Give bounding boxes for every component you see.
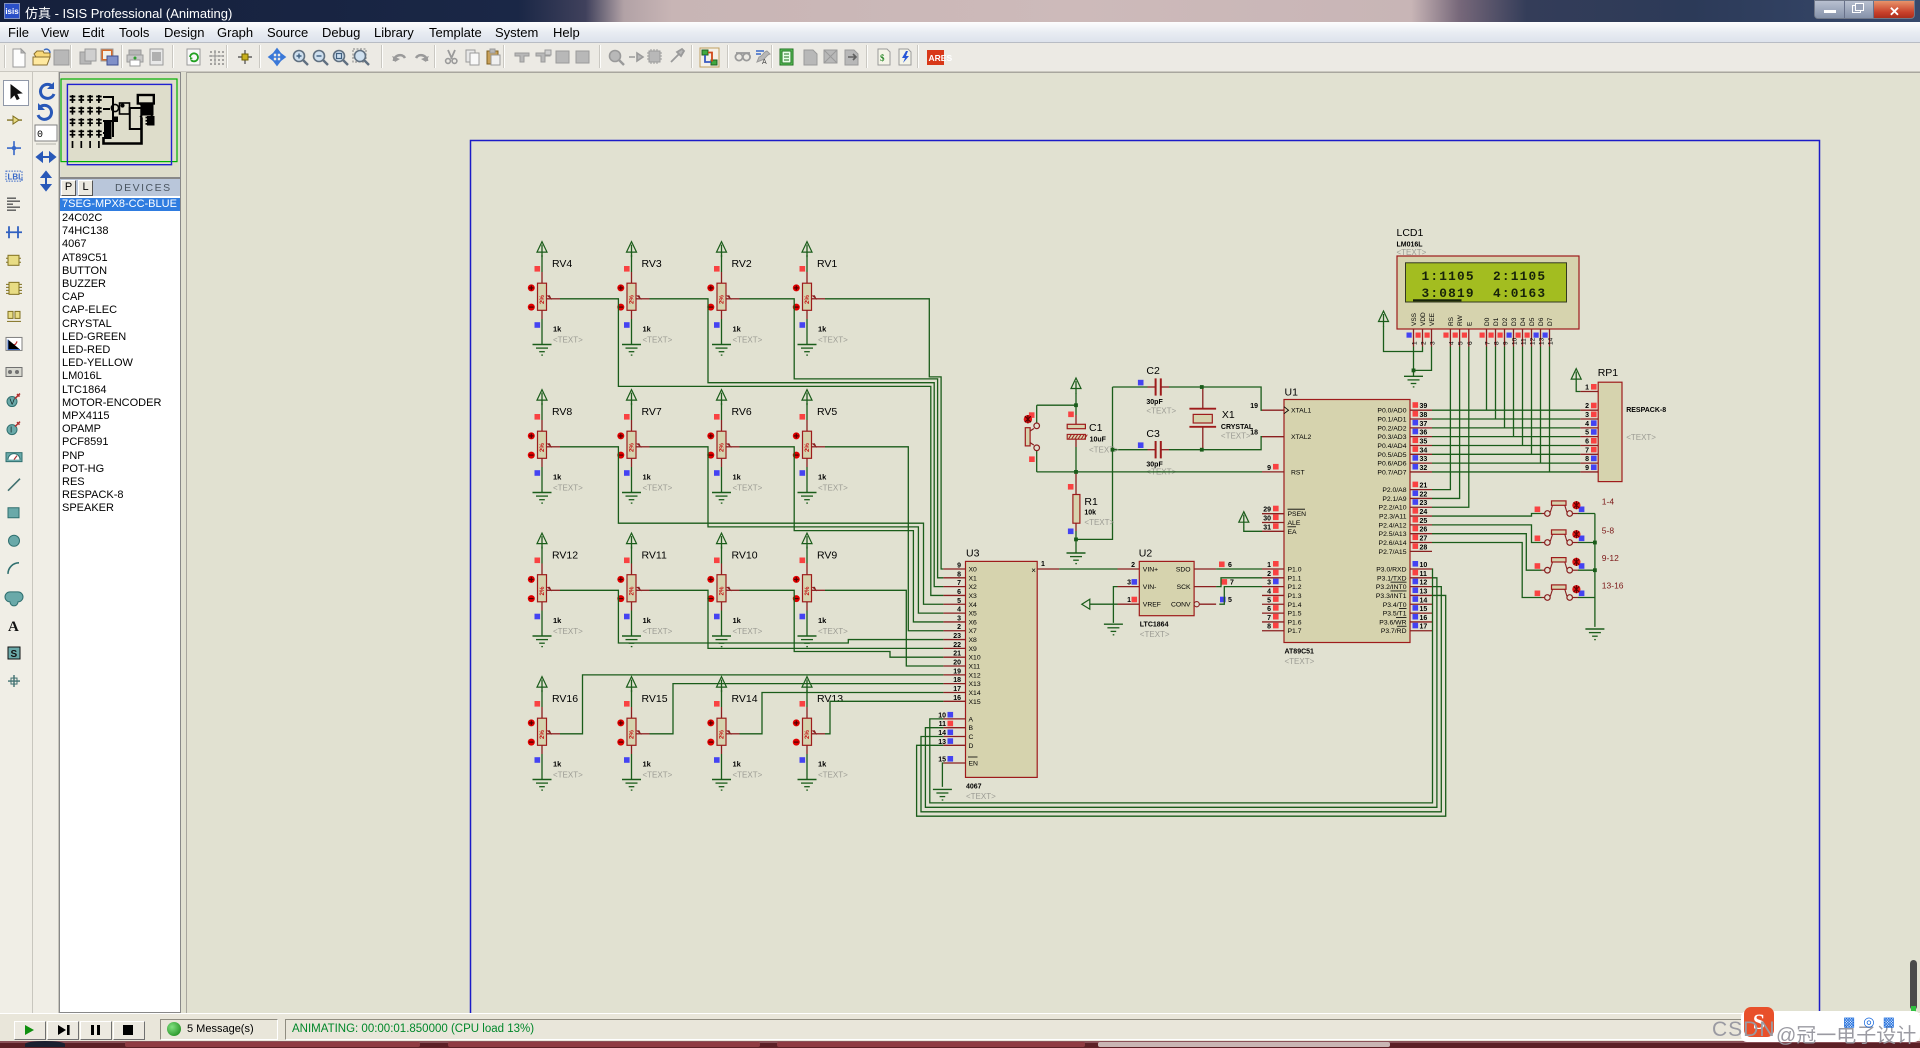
svg-text:RV6: RV6: [732, 406, 752, 418]
svg-text:1: 1: [1127, 597, 1131, 604]
svg-text:P1.5: P1.5: [1288, 611, 1302, 618]
svg-text:1k: 1k: [818, 760, 827, 769]
microcontroller U1 AT89C51: [1250, 387, 1432, 667]
svg-text:2: 2: [1585, 403, 1589, 410]
svg-text:<TEXT>: <TEXT>: [643, 771, 673, 780]
svg-text:1k: 1k: [643, 616, 652, 625]
svg-text:P3.5/T1: P3.5/T1: [1383, 611, 1407, 618]
svg-text:20: 20: [953, 660, 961, 667]
svg-text:<TEXT>: <TEXT>: [1285, 657, 1315, 666]
svg-text:D0: D0: [1484, 317, 1491, 326]
wire junction: [1200, 448, 1204, 452]
svg-text:16: 16: [953, 695, 961, 702]
op-amp-style IC U3 4067 16-channel analog multiplexer: [938, 547, 1059, 801]
svg-text:A: A: [969, 716, 974, 723]
svg-text:2: 2: [1421, 341, 1428, 345]
svg-text:39: 39: [1420, 403, 1428, 410]
potentiometer RV5 1k with power terminal and ground: [793, 390, 848, 504]
svg-text:8: 8: [1585, 456, 1589, 463]
svg-text:I: I: [10, 426, 12, 435]
svg-text:27: 27: [1420, 536, 1428, 543]
svg-text:<TEXT>: <TEXT>: [733, 627, 763, 636]
svg-text:6: 6: [1585, 438, 1589, 445]
svg-text:RV14: RV14: [732, 693, 758, 705]
wire junction: [1111, 448, 1115, 452]
svg-text:VIN+: VIN+: [1143, 567, 1158, 574]
svg-text:RV12: RV12: [552, 550, 578, 562]
svg-text:<TEXT>: <TEXT>: [733, 484, 763, 493]
svg-text:<TEXT>: <TEXT>: [1221, 432, 1251, 441]
svg-text:RV1: RV1: [817, 258, 837, 270]
svg-text:2%: 2%: [539, 443, 546, 452]
svg-text:<TEXT>: <TEXT>: [643, 484, 673, 493]
svg-text:33: 33: [1420, 456, 1428, 463]
svg-text:4:0163: 4:0163: [1493, 286, 1546, 301]
svg-text:<TEXT>: <TEXT>: [643, 336, 673, 345]
svg-text:17: 17: [1420, 624, 1428, 631]
svg-text:35: 35: [1420, 438, 1428, 445]
svg-text:<TEXT>: <TEXT>: [553, 336, 583, 345]
svg-text:21: 21: [1420, 483, 1428, 490]
svg-text:<TEXT>: <TEXT>: [1084, 518, 1114, 527]
svg-text:X3: X3: [969, 593, 978, 600]
svg-text:11: 11: [1420, 571, 1428, 578]
svg-text:19: 19: [953, 668, 961, 675]
svg-text:9: 9: [1267, 465, 1271, 472]
wire U3 B to U1 P3.1: [925, 578, 1437, 807]
wire U1 P2.3 to button 1-4: [1432, 514, 1542, 517]
svg-text:D5: D5: [1529, 317, 1536, 326]
potentiometer RV4 1k with power terminal and ground: [528, 242, 583, 356]
svg-text:7: 7: [1230, 580, 1234, 587]
wire LCD D0 riser to P0.0 net: [1486, 347, 1488, 411]
svg-text:X15: X15: [969, 699, 981, 706]
svg-text:2%: 2%: [629, 295, 636, 304]
svg-text:LCD1: LCD1: [1397, 227, 1424, 239]
capacitor C2 30pF: [1113, 365, 1202, 416]
svg-text:P0.1/AD1: P0.1/AD1: [1377, 417, 1406, 424]
svg-text:<TEXT>: <TEXT>: [1146, 407, 1176, 416]
svg-text:2%: 2%: [804, 730, 811, 739]
svg-text:0: 0: [37, 130, 43, 141]
svg-text:13: 13: [1539, 337, 1546, 345]
wire U2 CONV to U1 P1.2: [1219, 587, 1262, 605]
wire RV16 wiper to U3 X12: [560, 675, 943, 734]
svg-text:<TEXT>: <TEXT>: [643, 627, 673, 636]
svg-text:RST: RST: [1291, 469, 1305, 476]
ground for U3 EN: [933, 789, 952, 800]
svg-text:X7: X7: [969, 628, 978, 635]
svg-text:P2.6/A14: P2.6/A14: [1379, 540, 1407, 547]
potentiometer RV1 1k with power terminal and ground: [793, 242, 848, 356]
svg-text:P3.2/INT0: P3.2/INT0: [1376, 584, 1407, 591]
svg-text:1k: 1k: [643, 760, 652, 769]
potentiometer RV15 1k with power terminal and ground: [617, 677, 672, 791]
power terminal for EA pin: [1239, 512, 1262, 532]
wire LCD D3 riser to P0.3 net: [1513, 347, 1515, 437]
svg-text:SDO: SDO: [1176, 567, 1191, 574]
wire RV14 wiper to U3 X14: [740, 692, 944, 733]
svg-text:7: 7: [1485, 341, 1492, 345]
svg-text:<TEXT>: <TEXT>: [553, 627, 583, 636]
wire U1 P0.2 to RP1 pin 4: [1432, 427, 1580, 429]
wire U1 P2.6 to button 13-16: [1432, 543, 1542, 598]
svg-text:D: D: [969, 743, 974, 750]
svg-text:7: 7: [1267, 615, 1271, 622]
svg-text:RS: RS: [1448, 316, 1455, 326]
wire C3 node to XTAL2: [1202, 437, 1262, 450]
svg-text:1k: 1k: [643, 325, 652, 334]
svg-text:1k: 1k: [733, 760, 742, 769]
wire RV13 wiper to U3 X15: [825, 701, 943, 734]
svg-text:P1.3: P1.3: [1288, 593, 1302, 600]
svg-text:<TEXT>: <TEXT>: [818, 484, 848, 493]
svg-text:<TEXT>: <TEXT>: [1089, 446, 1119, 455]
svg-text:3:0819: 3:0819: [1422, 286, 1475, 301]
svg-text:C: C: [969, 734, 974, 741]
svg-text:P3.4/T0: P3.4/T0: [1383, 602, 1407, 609]
svg-text:X9: X9: [969, 646, 978, 653]
svg-text:5: 5: [1585, 430, 1589, 437]
push button 1-4: [1535, 497, 1615, 517]
rotate / mirror block: [33, 72, 59, 1013]
svg-text:P3.3/INT1: P3.3/INT1: [1376, 593, 1407, 600]
dark scrollbar overlay at right edge: [1910, 960, 1917, 1010]
svg-text:VREF: VREF: [1143, 602, 1161, 609]
svg-text:10uF: 10uF: [1090, 437, 1107, 444]
svg-text:RV3: RV3: [642, 258, 662, 270]
svg-text:D4: D4: [1520, 317, 1527, 326]
wire RV15 wiper to U3 X13: [650, 684, 944, 734]
svg-text:30: 30: [1263, 516, 1271, 523]
svg-text:X4: X4: [969, 602, 978, 609]
svg-text:P0.4/AD4: P0.4/AD4: [1377, 443, 1406, 450]
svg-text:RV7: RV7: [642, 406, 662, 418]
sheet border (blue frame of schematic page): [471, 141, 1820, 1014]
svg-text:<TEXT>: <TEXT>: [1397, 248, 1427, 257]
crystal X1: [1189, 387, 1254, 450]
svg-text:23: 23: [1420, 500, 1428, 507]
svg-text:4: 4: [1585, 421, 1589, 428]
LCD display LCD1 LM016L: [1397, 227, 1580, 347]
svg-text:B: B: [969, 725, 974, 732]
wire junction: [1412, 369, 1416, 373]
svg-text:4: 4: [957, 607, 961, 614]
svg-text:21: 21: [953, 651, 961, 658]
svg-text:2%: 2%: [804, 443, 811, 452]
svg-text:6: 6: [1467, 341, 1474, 345]
svg-text:D1: D1: [1493, 317, 1500, 326]
wire U3 C to U1 P3.2: [921, 587, 1441, 812]
svg-text:13: 13: [1420, 588, 1428, 595]
resistor pack RP1 RESPACK-8: [1580, 367, 1666, 481]
svg-text:8: 8: [1267, 624, 1271, 631]
svg-text:17: 17: [953, 686, 961, 693]
svg-text:CRYSTAL: CRYSTAL: [1221, 424, 1254, 431]
svg-text:1k: 1k: [818, 616, 827, 625]
svg-text:<TEXT>: <TEXT>: [818, 771, 848, 780]
wire U1 P0.5 to RP1 pin 7: [1432, 453, 1580, 455]
svg-text:X12: X12: [969, 672, 981, 679]
wire RV7 wiper to U3 X5: [650, 447, 944, 613]
svg-text:D2: D2: [1502, 317, 1509, 326]
svg-text:P1.4: P1.4: [1288, 602, 1302, 609]
svg-text:P0.3/AD3: P0.3/AD3: [1377, 434, 1406, 441]
svg-text:RV9: RV9: [817, 550, 837, 562]
svg-text:10: 10: [1512, 337, 1519, 345]
svg-text:X6: X6: [969, 619, 978, 626]
svg-text:29: 29: [1263, 507, 1271, 514]
svg-text:22: 22: [953, 642, 961, 649]
wire RV8 wiper to U3 X4: [560, 447, 943, 604]
svg-text:P1.2: P1.2: [1288, 584, 1302, 591]
svg-text:PSEN: PSEN: [1288, 511, 1307, 518]
potentiometer RV10 1k with power terminal and ground: [707, 533, 762, 647]
svg-text:<TEXT>: <TEXT>: [818, 627, 848, 636]
svg-text:U2: U2: [1139, 547, 1153, 559]
svg-text:RV2: RV2: [732, 258, 752, 270]
resistor R1 10k: [1068, 472, 1115, 553]
wire U2 VIN- to ground: [1113, 587, 1117, 623]
svg-text:P0.6/AD6: P0.6/AD6: [1377, 461, 1406, 468]
svg-text:36: 36: [1420, 430, 1428, 437]
svg-text:2%: 2%: [719, 586, 726, 595]
svg-text:2%: 2%: [539, 730, 546, 739]
svg-text:X0: X0: [969, 567, 978, 574]
svg-text:4067: 4067: [966, 783, 982, 790]
svg-text:6: 6: [1228, 562, 1232, 569]
potentiometer RV8 1k with power terminal and ground: [528, 390, 583, 504]
svg-text:24: 24: [1420, 509, 1428, 516]
svg-text:1: 1: [1585, 385, 1589, 392]
svg-text:2%: 2%: [629, 730, 636, 739]
wire U3 X output to U2 VIN+: [1059, 568, 1117, 570]
potentiometer RV12 1k with power terminal and ground: [528, 533, 583, 647]
svg-text:7: 7: [957, 580, 961, 587]
svg-text:1k: 1k: [553, 616, 562, 625]
svg-text:C2: C2: [1146, 365, 1160, 377]
svg-text:P0.5/AD5: P0.5/AD5: [1377, 452, 1406, 459]
device list panel: [59, 178, 181, 1013]
wire RV6 wiper to U3 X6: [740, 447, 944, 622]
svg-text:<TEXT>: <TEXT>: [966, 792, 996, 801]
svg-text:LTC1864: LTC1864: [1140, 622, 1169, 629]
svg-text:19: 19: [1250, 403, 1258, 410]
wire RV9 wiper to U3 X11: [825, 590, 943, 666]
svg-text:P0.2/AD2: P0.2/AD2: [1377, 425, 1406, 432]
svg-text:5: 5: [1267, 597, 1271, 604]
svg-text:X10: X10: [969, 655, 981, 662]
svg-text:X5: X5: [969, 611, 978, 618]
svg-text:5: 5: [957, 598, 961, 605]
wire RV11 wiper to U3 X9: [650, 590, 944, 648]
svg-text:VSS: VSS: [1411, 312, 1418, 326]
wire RV5 wiper to U3 X7: [825, 447, 943, 631]
wire RV10 wiper to U3 X10: [740, 590, 944, 657]
svg-text:1k: 1k: [733, 325, 742, 334]
wire LCD VDD to power: [1384, 326, 1423, 352]
svg-text:1k: 1k: [553, 325, 562, 334]
svg-text:P2.4/A12: P2.4/A12: [1379, 522, 1407, 529]
svg-text:9: 9: [957, 563, 961, 570]
wire C2 node to XTAL1: [1202, 387, 1262, 410]
svg-text:ALE: ALE: [1288, 520, 1301, 527]
svg-text:RESPACK-8: RESPACK-8: [1626, 407, 1666, 414]
svg-text:P2.0/A8: P2.0/A8: [1382, 487, 1406, 494]
wire U1 P0.7 to RP1 pin 9: [1432, 471, 1580, 473]
svg-text:14: 14: [1420, 597, 1428, 604]
svg-text:2%: 2%: [629, 443, 636, 452]
svg-text:1: 1: [1041, 561, 1045, 568]
svg-text:RW: RW: [1457, 314, 1464, 326]
wire power to C1 and button: [1068, 405, 1076, 424]
svg-text:RV11: RV11: [642, 550, 667, 562]
power terminal for reset circuit: [1071, 378, 1081, 405]
svg-text:P0.0/AD0: P0.0/AD0: [1377, 408, 1406, 415]
svg-text:C3: C3: [1146, 428, 1160, 440]
ground for U2 VIN-: [1104, 624, 1123, 635]
svg-text:1k: 1k: [643, 473, 652, 482]
svg-text:RV10: RV10: [732, 550, 758, 562]
svg-text:22: 22: [1420, 491, 1428, 498]
svg-text:13-16: 13-16: [1602, 581, 1624, 591]
svg-text:P1.1: P1.1: [1288, 575, 1302, 582]
svg-text:×: ×: [1031, 566, 1036, 575]
power terminal for LCD VDD: [1379, 311, 1389, 327]
svg-text:RP1: RP1: [1598, 367, 1619, 379]
svg-text:A: A: [8, 619, 19, 635]
wire U1 P0.0 to RP1 pin 2: [1432, 409, 1580, 411]
svg-text:3: 3: [957, 615, 961, 622]
svg-text:34: 34: [1420, 447, 1428, 454]
svg-text:P3.6/WR: P3.6/WR: [1379, 619, 1406, 626]
svg-text:1: 1: [1412, 341, 1419, 345]
svg-text:28: 28: [1420, 544, 1428, 551]
svg-text:D7: D7: [1547, 317, 1554, 326]
svg-text:LBL: LBL: [8, 173, 24, 182]
svg-text:37: 37: [1420, 421, 1428, 428]
svg-text:4: 4: [1448, 341, 1455, 345]
svg-text:1:1105: 1:1105: [1422, 269, 1475, 284]
svg-text:26: 26: [1420, 527, 1428, 534]
svg-text:1k: 1k: [733, 473, 742, 482]
svg-text:1k: 1k: [733, 616, 742, 625]
potentiometer RV11 1k with power terminal and ground: [617, 533, 672, 647]
svg-text:2%: 2%: [719, 295, 726, 304]
potentiometer RV6 1k with power terminal and ground: [707, 390, 762, 504]
wire LCD D7 riser to P0.7 net: [1549, 347, 1551, 472]
svg-text:1k: 1k: [818, 325, 827, 334]
wire RV12 wiper to U3 X8: [560, 590, 943, 643]
svg-text:25: 25: [1420, 518, 1428, 525]
wire U3 EN to ground: [942, 763, 943, 787]
svg-text:1k: 1k: [553, 473, 562, 482]
wire junction: [1074, 403, 1078, 407]
left tool palette: [0, 72, 33, 1013]
svg-text:<TEXT>: <TEXT>: [1140, 630, 1170, 639]
wire U1 P0.6 to RP1 pin 8: [1432, 462, 1580, 464]
svg-text:1k: 1k: [818, 473, 827, 482]
toolbar: [0, 43, 1920, 72]
svg-text:X11: X11: [969, 664, 981, 671]
svg-text:P2.3/A11: P2.3/A11: [1379, 514, 1407, 521]
wire buttons common to ground: [1594, 514, 1596, 627]
wire LCD VEE to ground rail: [1414, 347, 1432, 371]
overview panel: [59, 72, 181, 178]
wire junction: [1593, 541, 1597, 545]
svg-text:P0.7/AD7: P0.7/AD7: [1377, 469, 1406, 476]
svg-text:38: 38: [1420, 412, 1428, 419]
svg-text:12: 12: [1530, 337, 1537, 345]
svg-text:14: 14: [1548, 337, 1555, 345]
svg-text:P2.5/A13: P2.5/A13: [1379, 531, 1407, 538]
wire LCD D5 riser to P0.5 net: [1531, 347, 1533, 455]
svg-text:RV5: RV5: [817, 406, 837, 418]
svg-text:<TEXT>: <TEXT>: [1626, 433, 1656, 442]
svg-text:P2.7/A15: P2.7/A15: [1379, 549, 1407, 556]
wire RV2 wiper to U3 X1: [740, 299, 944, 578]
svg-text:ARES: ARES: [929, 53, 953, 63]
svg-text:9: 9: [1585, 465, 1589, 472]
CSDN watermark: [1741, 1011, 1920, 1042]
svg-text:15: 15: [1420, 606, 1428, 613]
svg-text:1k: 1k: [553, 760, 562, 769]
wire RV1 wiper to U3 X0: [825, 299, 943, 569]
window title bar: [0, 0, 1920, 22]
push button (reset): [1024, 405, 1076, 472]
svg-text:10: 10: [1420, 562, 1428, 569]
potentiometer RV9 1k with power terminal and ground: [793, 533, 848, 647]
svg-text:10k: 10k: [1084, 510, 1096, 517]
svg-text:<TEXT>: <TEXT>: [818, 336, 848, 345]
status bar: [0, 1013, 1920, 1042]
svg-text:P1.6: P1.6: [1288, 619, 1302, 626]
capacitor C3 30pF: [1113, 428, 1202, 477]
svg-text:11: 11: [1521, 338, 1528, 345]
window buttons: [1814, 0, 1915, 19]
wire U3 D to U1 P3.3: [917, 595, 1446, 816]
potentiometer RV14 1k with power terminal and ground: [707, 677, 762, 791]
svg-text:VEE: VEE: [1429, 312, 1436, 326]
potentiometer RV16 1k with power terminal and ground: [528, 677, 583, 791]
wire RV4 wiper to U3 X3: [560, 299, 943, 596]
svg-text:XTAL2: XTAL2: [1291, 434, 1311, 441]
wire LCD VSS to ground: [1413, 347, 1415, 377]
wire U2 SDO to U1 P1.0: [1216, 568, 1262, 570]
svg-text:6: 6: [1267, 606, 1271, 613]
wire U2 SCK to U1 P1.1: [1216, 578, 1262, 587]
reference terminal for U2 VREF: [1082, 599, 1118, 609]
svg-text:X1: X1: [1222, 409, 1235, 421]
svg-text:U1: U1: [1285, 387, 1299, 399]
svg-text:8: 8: [1494, 341, 1501, 345]
svg-text:4: 4: [1267, 588, 1271, 595]
svg-text:31: 31: [1263, 524, 1271, 531]
svg-text:P2.1/A9: P2.1/A9: [1382, 496, 1406, 503]
wire junction: [1074, 470, 1078, 474]
svg-text:$: $: [880, 53, 885, 63]
svg-text:<TEXT>: <TEXT>: [733, 771, 763, 780]
svg-text:1-4: 1-4: [1602, 497, 1615, 507]
svg-text:EN: EN: [969, 761, 979, 768]
wire U1 P0.3 to RP1 pin 5: [1432, 436, 1580, 438]
svg-text:D6: D6: [1538, 317, 1545, 326]
svg-text:P2.2/A10: P2.2/A10: [1379, 505, 1407, 512]
wire LCD D1 riser to P0.1 net: [1495, 347, 1497, 420]
svg-text:3: 3: [1127, 580, 1131, 587]
svg-text:3: 3: [1585, 412, 1589, 419]
power terminal for RP1 pin 1: [1571, 369, 1581, 392]
